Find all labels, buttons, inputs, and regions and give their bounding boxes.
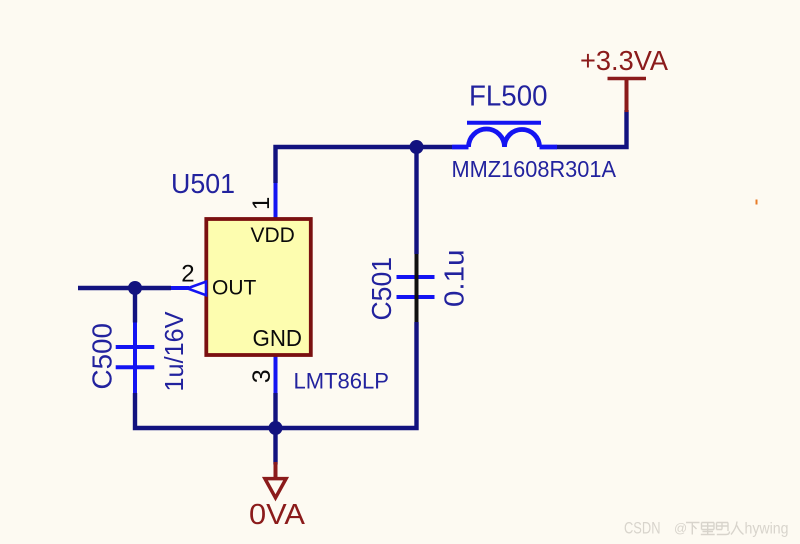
svg-text:LMT86LP: LMT86LP [294, 369, 390, 394]
svg-text:CSDN: CSDN [624, 520, 661, 538]
svg-text:0.1u: 0.1u [439, 250, 470, 308]
svg-text:U501: U501 [171, 168, 235, 199]
svg-text:3: 3 [248, 369, 276, 383]
svg-text:MMZ1608R301A: MMZ1608R301A [452, 156, 617, 182]
svg-text:+3.3VA: +3.3VA [580, 45, 668, 76]
svg-text:OUT: OUT [212, 277, 257, 300]
svg-text:C500: C500 [87, 323, 118, 390]
svg-text:0VA: 0VA [249, 499, 306, 531]
svg-text:1: 1 [248, 197, 275, 210]
svg-text:VDD: VDD [251, 224, 295, 247]
svg-text:2: 2 [181, 261, 194, 288]
svg-text:C501: C501 [366, 257, 397, 321]
svg-text:hywing: hywing [745, 521, 789, 538]
svg-text:GND: GND [253, 325, 303, 351]
svg-text:1u/16V: 1u/16V [159, 311, 189, 392]
svg-text:@: @ [674, 521, 687, 536]
svg-text:FL500: FL500 [469, 81, 548, 113]
